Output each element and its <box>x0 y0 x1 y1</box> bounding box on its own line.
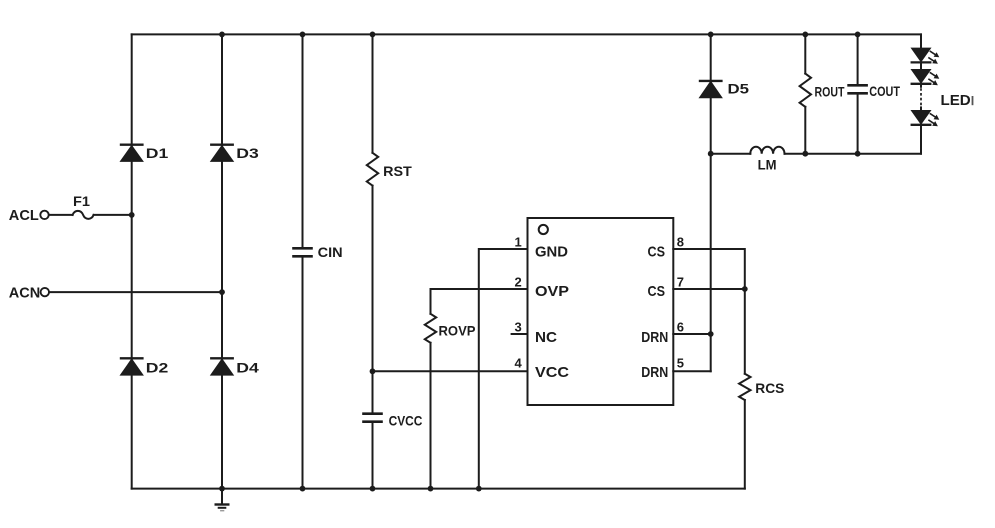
diode D1 <box>121 145 142 161</box>
resistor RST <box>367 153 378 186</box>
diode D4 <box>211 358 232 374</box>
svg-text:COUT: COUT <box>869 83 900 99</box>
LED LED3 <box>912 111 940 126</box>
svg-text:CIN: CIN <box>318 244 343 260</box>
svg-text:F1: F1 <box>73 194 91 209</box>
svg-text:ACL: ACL <box>9 207 39 224</box>
svg-text:5: 5 <box>677 356 684 371</box>
wire D5 column <box>710 34 712 371</box>
svg-text:RCS: RCS <box>755 380 784 396</box>
svg-text:D3: D3 <box>236 145 259 161</box>
svg-text:VCC: VCC <box>535 364 569 381</box>
wire ACL to bridge <box>49 214 132 216</box>
wire pin8 CS to RCS column <box>673 249 745 489</box>
wire CIN column <box>302 34 304 488</box>
wire top rail <box>132 33 921 35</box>
wire ACN to bridge <box>49 291 222 293</box>
wire pin1 GND to ground column <box>479 249 528 489</box>
svg-text:1: 1 <box>514 235 521 250</box>
LED LED1 <box>912 49 940 64</box>
svg-text:DRN: DRN <box>641 329 668 346</box>
svg-text:D5: D5 <box>728 81 750 97</box>
wire LM row <box>711 153 921 155</box>
svg-text:CS: CS <box>648 283 666 300</box>
resistor RCS <box>739 374 750 400</box>
svg-text:OVP: OVP <box>535 283 569 300</box>
wire bottom rail <box>132 488 745 490</box>
wire ROUT column <box>804 34 806 153</box>
wire bridge left column <box>131 34 133 488</box>
svg-text:CVCC: CVCC <box>389 413 423 428</box>
wire pin2 OVP to ROVP <box>431 289 528 489</box>
wire pin3 NC stub <box>512 333 528 335</box>
diode D3 <box>211 145 232 161</box>
diode D5 <box>700 81 721 97</box>
svg-text:D4: D4 <box>236 360 259 376</box>
svg-text:NC: NC <box>535 329 557 346</box>
svg-text:CS: CS <box>648 243 666 260</box>
svg-text:ROVP: ROVP <box>439 323 476 339</box>
IC U1 pin1 indicator <box>539 225 548 234</box>
wire bridge right column <box>221 34 223 488</box>
capacitor CVCC <box>364 414 382 422</box>
terminal ACN <box>41 288 49 296</box>
capacitor COUT <box>849 85 867 93</box>
wire pin5 DRN <box>673 370 710 372</box>
svg-text:LM: LM <box>758 157 777 173</box>
svg-text:GND: GND <box>535 243 568 260</box>
svg-text:2: 2 <box>514 275 521 290</box>
diode D2 <box>121 358 142 374</box>
resistor ROVP <box>425 314 436 343</box>
node junction dots <box>129 32 861 492</box>
LED LED2 <box>912 70 940 85</box>
IC U1 body <box>528 218 674 405</box>
svg-text:8: 8 <box>677 235 684 250</box>
svg-text:DRN: DRN <box>641 364 668 381</box>
wire COUT column <box>857 34 859 153</box>
fuse F1 <box>73 211 94 219</box>
ground <box>216 489 229 511</box>
svg-text:LED: LED <box>941 92 971 109</box>
wire RST/CVCC column <box>372 34 374 488</box>
inductor LM <box>750 147 784 154</box>
terminal ACL <box>40 211 48 219</box>
label LED <box>941 92 974 109</box>
svg-text:3: 3 <box>514 320 521 335</box>
svg-text:D2: D2 <box>146 360 169 376</box>
svg-text:ACN: ACN <box>9 284 41 301</box>
svg-text:ROUT: ROUT <box>815 83 845 99</box>
wire pin4 VCC <box>373 370 528 372</box>
svg-text:6: 6 <box>677 320 684 335</box>
capacitor CIN <box>294 248 312 256</box>
wire LED column <box>920 34 922 153</box>
svg-text:4: 4 <box>514 356 522 371</box>
resistor ROUT <box>800 74 811 107</box>
svg-text:7: 7 <box>677 275 684 290</box>
svg-text:D1: D1 <box>146 145 169 161</box>
wire pin7 CS <box>673 288 745 290</box>
wire LED dashed segment <box>920 88 922 107</box>
wire pin6 DRN <box>673 333 710 335</box>
svg-text:RST: RST <box>383 163 412 179</box>
